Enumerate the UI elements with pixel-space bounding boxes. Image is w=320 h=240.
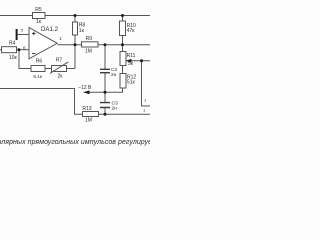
svg-text:R5: R5 <box>35 7 42 13</box>
resistor R12 <box>120 74 126 89</box>
resistor R8 <box>73 22 78 35</box>
wire R8 top lead <box>74 16 76 23</box>
svg-text:9.1к: 9.1к <box>33 74 43 80</box>
svg-text:DA1.2: DA1.2 <box>41 26 59 33</box>
R11 wiper arrowhead <box>126 59 132 63</box>
svg-text:1: 1 <box>143 108 146 113</box>
svg-text:C2: C2 <box>111 67 117 73</box>
wire R10 top lead <box>122 16 124 22</box>
wire R6-R7 <box>45 68 52 70</box>
wire C2-C3 column <box>104 73 106 102</box>
wire output <box>58 44 82 46</box>
svg-text:R4: R4 <box>9 41 16 47</box>
R7 wiper diagonal <box>50 62 68 74</box>
node dot top R10 <box>121 14 124 17</box>
resistor R5 <box>33 13 46 19</box>
wire output right <box>98 44 150 46</box>
wire R11 top lead <box>122 45 124 52</box>
resistor R6 <box>31 66 45 72</box>
svg-text:2н: 2н <box>112 105 118 111</box>
wire R4 left stub <box>0 49 2 51</box>
wire R11 wiper line <box>131 60 150 62</box>
svg-text:олярных прямоугольных импульсо: олярных прямоугольных импульсов регулиру… <box>0 139 150 146</box>
svg-text:1к: 1к <box>36 19 42 25</box>
capacitor plate input bar <box>16 29 18 40</box>
resistor R13 <box>83 112 99 117</box>
wire feedback down from pin6 node <box>19 50 31 69</box>
wire op-amp pin7 input <box>18 34 29 36</box>
svg-text:R11: R11 <box>127 53 136 59</box>
svg-text:−12 В: −12 В <box>78 85 92 91</box>
op-amp minus sign <box>32 53 36 55</box>
svg-text:2н: 2н <box>111 72 117 78</box>
svg-text:2к: 2к <box>58 74 64 80</box>
wire C3 bottom lead <box>104 108 106 115</box>
svg-text:10к: 10к <box>9 55 18 61</box>
node dot output C2 <box>104 43 107 46</box>
wire R11-R12 <box>122 66 124 74</box>
node dot -12V C2 <box>104 91 107 94</box>
wire left rail <box>0 89 83 115</box>
node dot bottom C3 <box>104 113 107 116</box>
wire bottom bus right <box>99 113 151 115</box>
svg-text:1к: 1к <box>79 28 85 34</box>
wire R8 bottom lead <box>74 35 76 45</box>
node dot output R8 <box>74 43 77 46</box>
svg-text:47к: 47к <box>127 28 136 34</box>
node dot wiper <box>140 59 143 62</box>
capacitor C3 <box>100 103 110 108</box>
svg-text:1М: 1М <box>85 49 92 55</box>
svg-text:1М: 1М <box>85 117 92 123</box>
wire R4 to pin6 <box>17 49 30 51</box>
capacitor C2 <box>100 69 110 72</box>
node dot pin6 <box>18 48 21 51</box>
wire R12 bottom to -12V rail <box>88 88 123 92</box>
svg-text:1: 1 <box>59 36 62 41</box>
svg-text:R13: R13 <box>82 106 91 112</box>
svg-text:R9: R9 <box>86 36 93 42</box>
resistor R9 <box>82 42 99 47</box>
wire R10 bottom lead <box>122 36 124 45</box>
resistor R10 <box>120 21 126 36</box>
op-amp plus sign <box>32 32 36 36</box>
svg-text:5к: 5к <box>128 61 134 67</box>
op-amp DA1.2 <box>29 28 57 59</box>
svg-text:R7: R7 <box>56 58 63 64</box>
resistor R7 <box>52 66 67 72</box>
resistor R11 <box>120 52 126 66</box>
wire R7 to output node <box>67 45 76 69</box>
wire right connector branch <box>142 61 151 106</box>
-12V arrowhead <box>83 90 90 94</box>
node dot output R10 <box>121 43 124 46</box>
svg-text:R6: R6 <box>36 59 43 65</box>
wire top bus right <box>45 15 150 17</box>
node dot top R8 <box>74 14 77 17</box>
svg-text:1: 1 <box>144 98 147 103</box>
svg-text:7: 7 <box>21 28 24 33</box>
svg-text:6: 6 <box>23 45 26 50</box>
wire top bus left <box>0 15 33 17</box>
resistor R4 <box>2 47 17 53</box>
wire C2 top lead <box>104 45 106 69</box>
svg-text:51к: 51к <box>127 79 136 85</box>
